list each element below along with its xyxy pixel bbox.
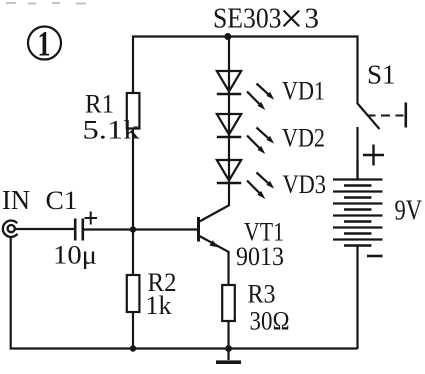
battery negative minus: [367, 255, 383, 258]
svg-text:9013: 9013: [236, 242, 284, 271]
wire capacitor to base: [83, 228, 197, 230]
svg-text:10μ: 10μ: [53, 241, 97, 270]
node junction emitter ground: [225, 345, 232, 352]
node junction R2 ground: [130, 345, 136, 351]
capacitor C1: [75, 219, 83, 241]
svg-text:3: 3: [305, 3, 320, 35]
LED VD3: [217, 160, 241, 183]
switch S1 actuator bar: [404, 103, 407, 128]
svg-text:VD3: VD3: [283, 170, 327, 199]
wire input down lead: [10, 237, 12, 350]
smudge artifact top edge: [6, 2, 86, 5]
svg-text:VD1: VD1: [282, 77, 325, 106]
battery positive plus: [363, 145, 384, 166]
svg-text:R3: R3: [248, 280, 276, 309]
transistor VT1: [199, 205, 230, 252]
wire emitter lead: [227, 251, 229, 286]
wire bottom rail: [10, 347, 358, 349]
LED VD1: [217, 71, 241, 94]
svg-text:9V: 9V: [395, 196, 423, 227]
svg-text:C1: C1: [46, 186, 78, 215]
input jack terminal: [3, 221, 18, 237]
wire battery bottom lead: [356, 246, 358, 350]
node junction top LED branch: [224, 33, 231, 40]
node junction base bias: [130, 226, 136, 232]
svg-text:IN: IN: [2, 185, 30, 215]
LED VD2 light arrows: [247, 128, 274, 155]
wire battery top lead: [356, 160, 358, 180]
switch S1: [358, 36, 380, 181]
wire input to capacitor: [15, 228, 75, 230]
svg-text:5.1k: 5.1k: [83, 116, 140, 145]
svg-text:R1: R1: [85, 90, 114, 119]
LED VD1 light arrows: [247, 84, 274, 111]
LED VD2: [217, 114, 241, 137]
resistor R3: [222, 285, 235, 321]
LED VD3 light arrows: [247, 173, 274, 200]
wire top rail: [132, 35, 359, 37]
ground: [216, 348, 241, 362]
capacitor C1 polarity plus: [85, 212, 98, 225]
svg-text:30Ω: 30Ω: [250, 307, 290, 336]
title label SE303x3: [213, 0, 319, 43]
wire R3 bottom lead: [227, 321, 229, 349]
wire R2 top lead: [132, 229, 134, 276]
svg-text:VD2: VD2: [282, 124, 325, 153]
wire R1 bottom lead to base node: [132, 128, 134, 230]
wire LED branch: [228, 37, 230, 207]
figure number badge circle: [28, 27, 61, 60]
svg-text:S1: S1: [367, 60, 396, 90]
svg-text:SE303: SE303: [213, 3, 282, 35]
battery BT 9V: [333, 180, 383, 246]
switch S1 actuator dashes: [368, 115, 404, 117]
svg-text:1k: 1k: [146, 291, 172, 320]
svg-text:1: 1: [38, 24, 51, 64]
wire R1 top lead: [132, 36, 134, 95]
wire R2 bottom lead: [132, 312, 134, 349]
resistor R1: [127, 93, 140, 129]
resistor R2: [127, 275, 140, 312]
